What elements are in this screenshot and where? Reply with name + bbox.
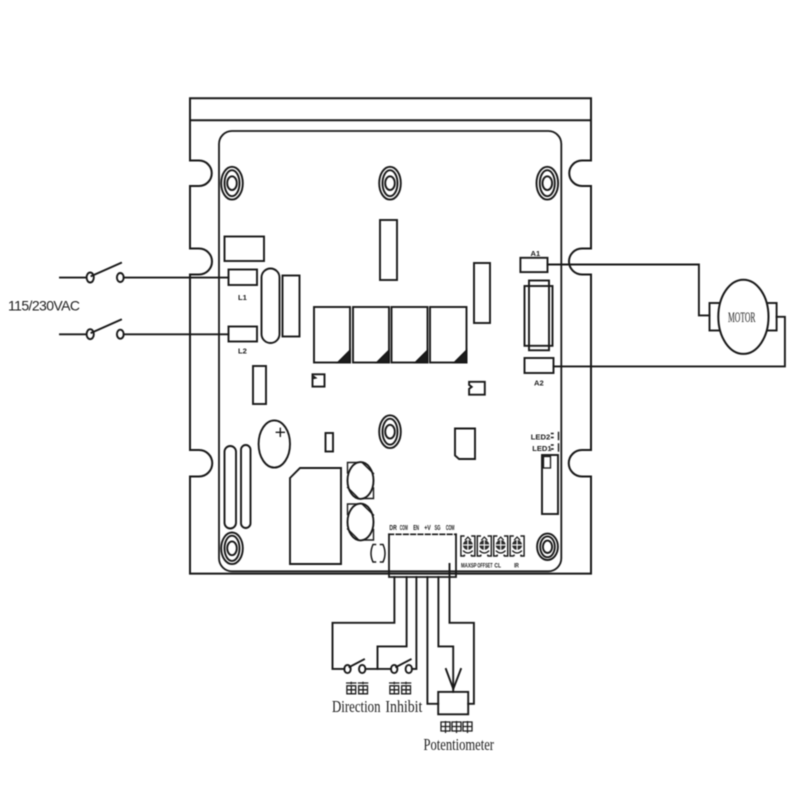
svg-text:SG: SG (435, 525, 441, 532)
heatsink plate outline with edge notches (190, 98, 591, 573)
wire COM2 (378, 577, 407, 669)
notched connector J2 (469, 382, 485, 395)
tall rect right (474, 263, 490, 323)
wire +V (427, 577, 438, 704)
mounting hole bottom-right (537, 534, 558, 560)
switch S3 direction (344, 659, 365, 673)
svg-text:L2: L2 (238, 347, 247, 356)
A2 terminal (525, 358, 554, 373)
AC switch S2 (87, 320, 124, 340)
small resistor below L2 (253, 366, 266, 404)
wire EN (412, 577, 417, 669)
crystal Y1 brackets (371, 545, 385, 563)
svg-text:Potentiometer: Potentiometer (424, 735, 495, 754)
chip U2 (455, 429, 475, 460)
motor terminal left (710, 303, 722, 331)
capacitor C2 (ellipse in pad) (348, 462, 374, 499)
svg-text:MAXSP: MAXSP (461, 564, 477, 570)
svg-text:A1: A1 (531, 249, 541, 258)
terminal L1 (229, 270, 258, 286)
fuse F1 outer (525, 286, 553, 346)
trimmer labels (461, 564, 519, 570)
svg-text:OFFSET: OFFSET (477, 564, 492, 570)
AC switch S1 (87, 263, 124, 283)
transistor Q3 (392, 307, 428, 363)
wire S1 to L1 (124, 277, 229, 279)
mounting hole top-left (221, 167, 243, 200)
label fangxiang (direction CJK) (346, 682, 368, 694)
label dianweiqi (potentiometer CJK) (441, 721, 472, 733)
wire motor to A2 (554, 317, 785, 367)
PCB outline (219, 131, 561, 571)
label qiting (inhibit CJK) (389, 682, 411, 694)
capacitor CX (stadium) (262, 269, 280, 344)
fuse F1 inner (529, 281, 549, 351)
svg-text:+V: +V (424, 525, 431, 532)
svg-text:L1: L1 (238, 293, 248, 302)
transistor Q1 (314, 307, 350, 363)
trimmer IR (510, 536, 524, 556)
terminal L2 (229, 327, 258, 342)
switch row link (366, 668, 391, 670)
wire DR (333, 577, 395, 669)
svg-text:A2: A2 (534, 379, 544, 388)
electrolytic capacitor C1 (259, 420, 290, 467)
plate inner top line (190, 119, 591, 121)
svg-text:EN: EN (413, 525, 419, 532)
svg-text:DR: DR (389, 525, 396, 532)
svg-text:Inhibit: Inhibit (385, 697, 422, 716)
relay K1 (225, 237, 265, 262)
terminal labels (389, 525, 454, 532)
wire SG wiper (438, 577, 453, 692)
connector J3 (542, 455, 558, 514)
A1 terminal (520, 258, 547, 272)
AC switch S1 wire left (60, 277, 87, 279)
transistor Q4 (430, 307, 467, 363)
capacitor C3 (ellipse in pad) (348, 504, 374, 541)
small notched square D1 (313, 374, 325, 386)
transistor Q2 (353, 307, 389, 363)
svg-text:IR: IR (514, 564, 519, 570)
svg-text:Direction: Direction (332, 697, 381, 716)
trimmer MAXSP (461, 536, 475, 556)
svg-text:LED1: LED1 (532, 444, 552, 453)
potentiometer RP body (438, 692, 468, 714)
svg-text:MOTOR: MOTOR (728, 310, 756, 326)
mounting hole bottom-left (221, 533, 243, 565)
wire A1 to motor (548, 265, 710, 316)
svg-text:COM: COM (446, 525, 455, 532)
potentiometer wiper arrow (446, 669, 461, 689)
wire COM6 (450, 564, 474, 704)
terminal block TB1 (389, 534, 456, 577)
svg-text:115/230VAC: 115/230VAC (8, 298, 80, 314)
motor terminal right (765, 303, 776, 331)
switch S4 inhibit (391, 659, 412, 673)
LED pads (552, 433, 559, 452)
resistor block (283, 276, 300, 337)
trimmer CL (494, 536, 508, 556)
top-center tall rect (380, 220, 397, 280)
mounting hole center (379, 415, 401, 448)
svg-text:COM: COM (400, 525, 408, 532)
svg-text:CL: CL (494, 564, 501, 570)
wire S2 to L2 (124, 333, 229, 335)
narrow rect R5 (326, 433, 334, 452)
slot 1 (225, 446, 237, 529)
mounting hole top-middle (379, 167, 401, 200)
mounting hole top-right (537, 167, 559, 200)
svg-text:LED2: LED2 (531, 433, 550, 442)
transformer T1 (290, 468, 341, 564)
motor M1 body (718, 280, 768, 354)
slot 2 (241, 445, 251, 528)
trimmer OFFSET (477, 536, 491, 556)
AC switch S2 wire left (60, 333, 87, 335)
